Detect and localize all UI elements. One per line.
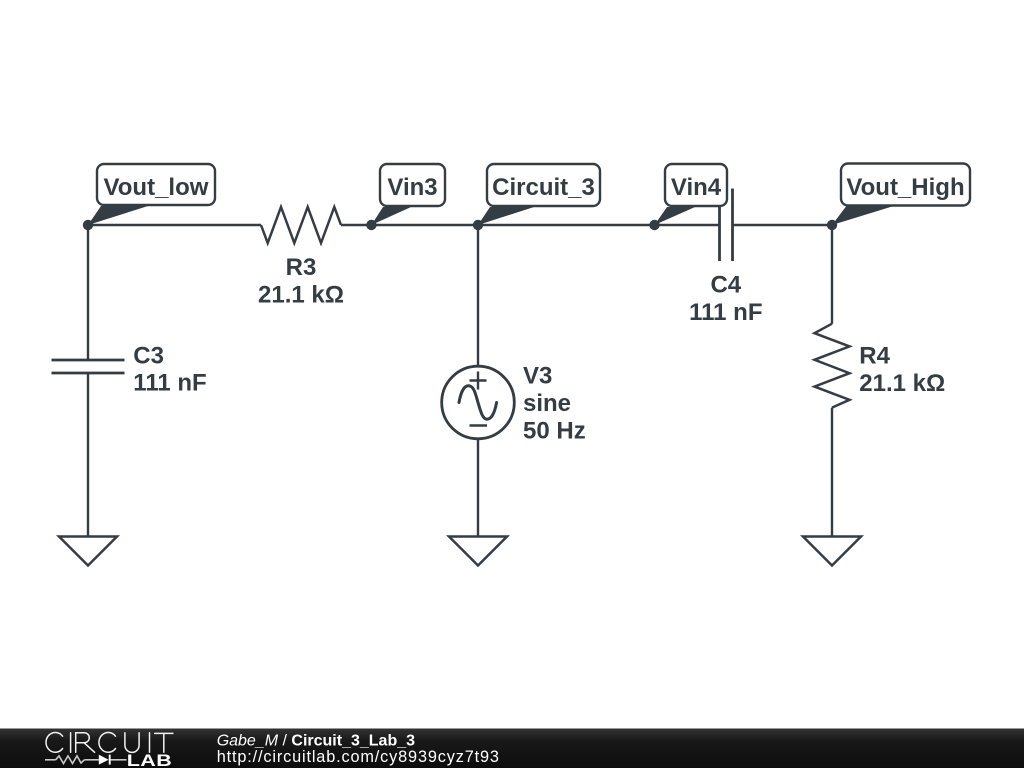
svg-text:Vout_High: Vout_High — [846, 174, 964, 201]
node label box Circuit_3 — [487, 164, 600, 206]
svg-text:111 nF: 111 nF — [133, 370, 206, 397]
voltage source V3 — [442, 366, 515, 439]
svg-text:Circuit_3: Circuit_3 — [492, 174, 595, 201]
CircuitLab logo word CIRCUIT (hand-drawn thin letters) — [46, 732, 173, 752]
wire Vout_High node down to R4 top terminal — [831, 225, 833, 324]
svg-text:Gabe_M / Circuit_3_Lab_3: Gabe_M / Circuit_3_Lab_3 — [217, 732, 415, 749]
wire R3 right terminal to C4 left plate (through Vin3, Circuit_3, Vin4 nodes) — [341, 224, 720, 226]
node Vin4 junction dot — [649, 220, 659, 230]
svg-text:21.1 kΩ: 21.1 kΩ — [258, 281, 344, 308]
resistor R3 — [261, 207, 341, 243]
CircuitLab logo word LAB — [127, 752, 172, 768]
flag tail Vout_low — [88, 206, 148, 225]
svg-text:Vout_low: Vout_low — [104, 174, 209, 201]
flag tail Vin4 — [655, 207, 696, 225]
node label box Vin3 — [380, 164, 445, 206]
wire Circuit_3 node down to V3 plus terminal — [477, 225, 479, 367]
capacitor C3 — [52, 360, 125, 373]
svg-text:21.1 kΩ: 21.1 kΩ — [859, 370, 945, 397]
node Vout_low junction dot — [83, 220, 93, 230]
node label box Vin4 — [665, 164, 727, 206]
node Vin3 junction dot — [366, 220, 376, 230]
svg-text:LAB: LAB — [127, 752, 172, 768]
node label box Vout_low — [97, 164, 215, 205]
wire R4 bottom terminal to right ground — [831, 408, 833, 537]
resistor R4 — [815, 324, 850, 408]
svg-text:111 nF: 111 nF — [689, 299, 762, 326]
ground (right) — [803, 537, 861, 566]
wire Vout_low node down to C3 top plate — [87, 225, 89, 360]
node Vout_High junction dot — [827, 220, 837, 230]
svg-text:R4: R4 — [859, 342, 890, 369]
svg-text:V3: V3 — [523, 363, 552, 390]
svg-text:C3: C3 — [133, 342, 164, 369]
wire V3 minus terminal to middle ground — [477, 439, 479, 537]
wire C3 bottom plate to left ground — [87, 373, 89, 537]
svg-text:R3: R3 — [286, 254, 317, 281]
ground (left) — [59, 537, 117, 566]
capacitor C4 — [720, 189, 733, 262]
svg-text:sine: sine — [523, 390, 571, 417]
svg-text:50 Hz: 50 Hz — [523, 417, 586, 444]
node Circuit_3 junction dot — [473, 220, 483, 230]
flag tail Vout_High — [832, 207, 892, 226]
svg-text:Vin4: Vin4 — [671, 174, 722, 201]
wire C4 right plate to Vout_High node — [733, 224, 833, 226]
ground (middle) — [449, 537, 507, 566]
flag tail Vin3 — [371, 207, 411, 225]
svg-text:Vin3: Vin3 — [387, 174, 437, 201]
footer bar — [0, 729, 1024, 768]
node label box Vout_High — [841, 164, 970, 206]
wire main net Vout_low to R3 left terminal — [88, 224, 261, 226]
CircuitLab logo schematic glyph (wire resistor diode) — [45, 755, 127, 765]
svg-text:C4: C4 — [710, 271, 741, 298]
svg-text:http://circuitlab.com/cy8939cy: http://circuitlab.com/cy8939cyz7t93 — [217, 748, 500, 766]
flag tail Circuit_3 — [478, 207, 534, 225]
